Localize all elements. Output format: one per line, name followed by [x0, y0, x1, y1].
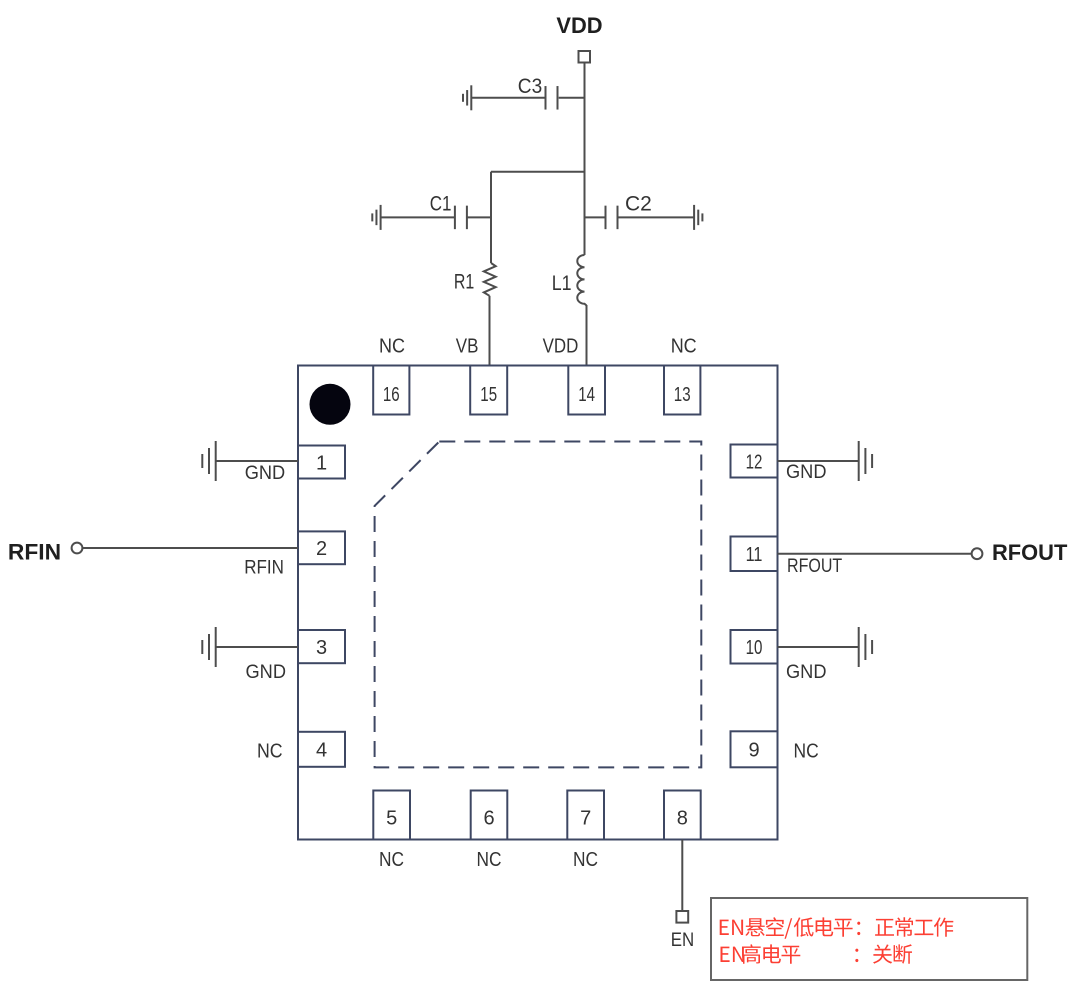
pin 9 box: [731, 731, 778, 767]
pin 1 box: [298, 446, 345, 479]
svg-text:4: 4: [316, 740, 327, 762]
svg-text:6: 6: [483, 807, 494, 829]
wire pin 11 to RFOUT: [778, 553, 972, 555]
capacitor C3: [546, 86, 558, 110]
wire pin 12 to ground: [778, 460, 859, 462]
pin 6 box: [471, 791, 508, 840]
pin 11 box: [731, 537, 778, 572]
ground (C3): [463, 85, 471, 110]
wire C1 ground to C1: [381, 216, 455, 218]
ground (C1): [372, 205, 380, 230]
svg-text:L1: L1: [552, 272, 572, 295]
svg-text:R1: R1: [454, 271, 474, 294]
IC U1 body: [298, 366, 778, 840]
pin 8 box: [664, 791, 701, 840]
pin 15 box: [470, 366, 507, 415]
pin 12 box: [731, 445, 778, 478]
svg-text:5: 5: [386, 807, 397, 829]
terminal VDD: [579, 51, 591, 63]
pin 14 box: [568, 366, 605, 415]
note text line 2 (EN高电平：关断): [721, 944, 913, 964]
svg-text:NC: NC: [477, 849, 502, 871]
pin 13 box: [664, 366, 700, 415]
svg-text:C3: C3: [518, 75, 542, 98]
terminal RFIN: [72, 543, 83, 554]
svg-text:12: 12: [746, 451, 763, 473]
wire RFIN to pin 2: [83, 547, 298, 549]
terminal EN: [676, 911, 688, 923]
svg-text:7: 7: [580, 807, 591, 829]
pin 2 box: [298, 531, 345, 564]
wire VDD vertical: [584, 63, 586, 256]
wire pin 8 to EN terminal: [681, 840, 683, 912]
svg-text:C2: C2: [625, 193, 652, 216]
pin 1 marker dot: [310, 384, 351, 425]
pin 5 box: [373, 791, 410, 840]
svg-text:NC: NC: [671, 336, 697, 358]
ground (C2): [694, 205, 702, 230]
ground (pin 12): [859, 441, 872, 481]
note text line 1 (EN悬空/低电平：正常工作): [720, 917, 954, 939]
svg-text:EN: EN: [671, 929, 694, 951]
pin 16 box: [373, 366, 409, 415]
svg-text:GND: GND: [246, 662, 287, 683]
note box: [711, 898, 1027, 980]
svg-text:11: 11: [746, 544, 763, 566]
svg-text:3: 3: [316, 637, 327, 659]
svg-text:GND: GND: [786, 462, 827, 483]
svg-text:NC: NC: [794, 741, 819, 763]
svg-text:GND: GND: [245, 463, 286, 484]
svg-text:2: 2: [316, 538, 327, 560]
ground (pin 3): [202, 627, 215, 667]
svg-text:RFOUT: RFOUT: [787, 555, 842, 577]
wire R1 to pin 15 (VB): [489, 296, 491, 366]
pin 3 box: [298, 630, 345, 663]
wire VB vertical upper: [490, 172, 492, 263]
ground (pin 10): [859, 627, 872, 667]
wire C1 to node VB: [467, 216, 491, 218]
wire pin 10 to ground: [778, 646, 859, 648]
wire C3 ground to C3: [471, 97, 545, 99]
svg-text:VB: VB: [456, 336, 479, 358]
wire VB branch horizontal: [491, 171, 585, 173]
pin 10 box: [731, 630, 778, 664]
pin 7 box: [567, 791, 604, 840]
svg-text:RFIN: RFIN: [8, 540, 61, 565]
ground (pin 1): [202, 441, 215, 481]
pin 4 box: [298, 732, 345, 767]
svg-text:16: 16: [383, 384, 400, 406]
wire C3 to VDD net: [559, 97, 585, 99]
svg-text:NC: NC: [257, 741, 283, 763]
svg-text:C1: C1: [430, 193, 452, 216]
svg-text:13: 13: [674, 384, 691, 406]
wire L1 to pin 14 (VDD): [586, 305, 588, 366]
svg-text:VDD: VDD: [556, 13, 602, 38]
capacitor C2: [606, 206, 618, 230]
wire VDD node to C2: [585, 216, 606, 218]
inductor L1: [577, 255, 586, 306]
svg-text:15: 15: [480, 384, 497, 406]
svg-text:14: 14: [578, 384, 595, 406]
svg-text:RFIN: RFIN: [244, 557, 284, 579]
svg-text:1: 1: [316, 452, 327, 474]
svg-text:8: 8: [677, 807, 688, 829]
svg-text:RFOUT: RFOUT: [992, 540, 1068, 565]
svg-text:10: 10: [746, 637, 763, 659]
svg-text:VDD: VDD: [543, 336, 579, 358]
svg-text:NC: NC: [379, 849, 404, 871]
wire pin 1 to ground: [216, 460, 298, 462]
svg-text:NC: NC: [573, 849, 598, 871]
svg-text:9: 9: [748, 740, 759, 762]
svg-text:GND: GND: [786, 662, 827, 683]
capacitor C1: [455, 206, 467, 230]
resistor R1: [484, 263, 496, 296]
svg-text:NC: NC: [379, 336, 405, 358]
wire pin 3 to ground: [216, 646, 298, 648]
exposed pad (dashed outline): [375, 442, 702, 768]
terminal RFOUT: [972, 548, 983, 559]
wire C2 to ground: [618, 216, 695, 218]
